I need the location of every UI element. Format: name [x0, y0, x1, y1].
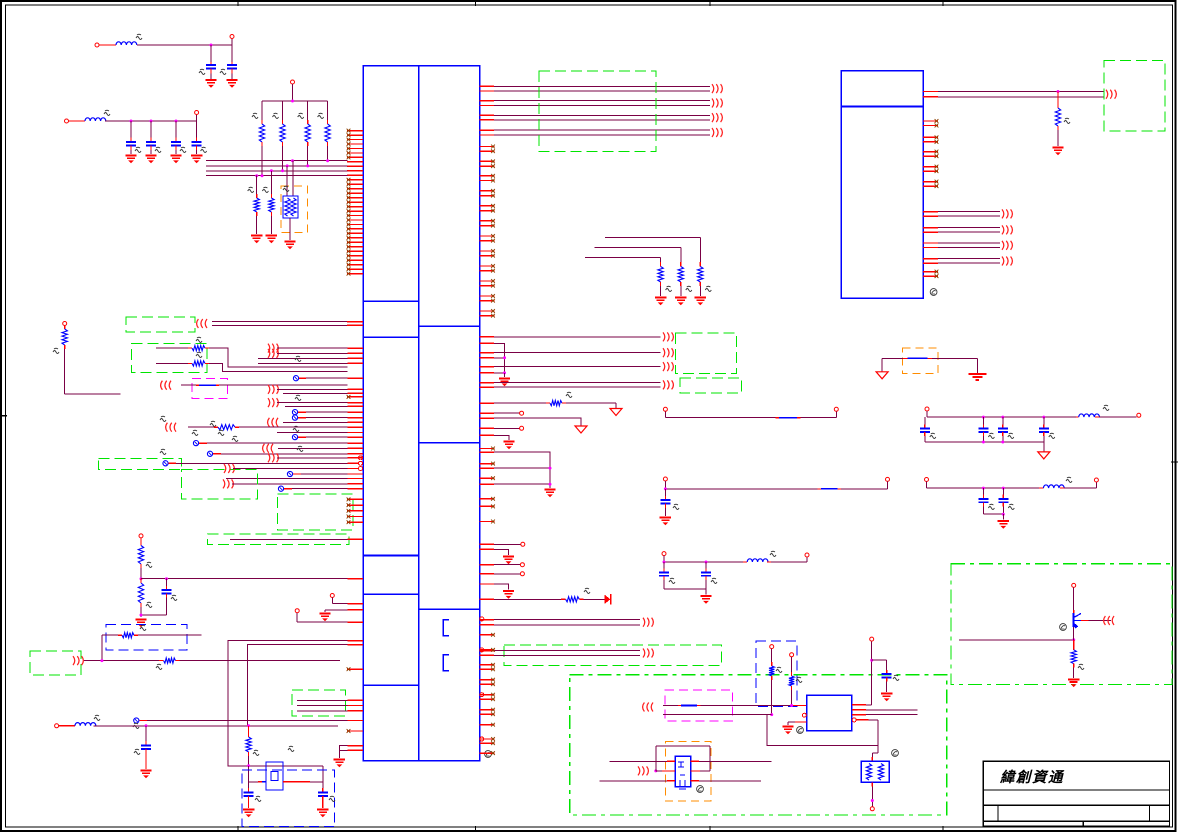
- U1 designator mark: [485, 751, 492, 758]
- capacitor C11: [660, 489, 679, 525]
- capacitor C15: [1039, 417, 1055, 442]
- junction: [664, 487, 667, 490]
- wire bus line 3: [206, 170, 348, 172]
- resistor R18 inline: [84, 658, 340, 670]
- junction: [281, 169, 284, 172]
- signal ground: [968, 374, 986, 380]
- wire to U1 pin: [230, 538, 363, 540]
- U2 wire pairs out: [923, 212, 1000, 264]
- wire to U1 pin: [268, 349, 363, 358]
- capacitor C2 label: [220, 69, 226, 74]
- power port: [1038, 452, 1050, 459]
- wire to U1 pin: [163, 461, 359, 466]
- net label: [232, 436, 238, 441]
- wire to U1 pin: [134, 718, 363, 723]
- wire open-end: [480, 542, 525, 546]
- junction: [549, 483, 552, 486]
- junction: [247, 764, 250, 767]
- wire to U1 pin: [297, 705, 363, 707]
- bus exit chevrons: [1002, 241, 1012, 250]
- bus entry chevrons: [73, 656, 83, 665]
- U1 pin bubble: [359, 461, 363, 465]
- wire: [339, 746, 347, 751]
- net label: [293, 426, 299, 431]
- U1 right column section divider 3: [419, 608, 480, 610]
- U1 pin bubble: [359, 467, 363, 471]
- junction: [870, 659, 873, 662]
- junction: [140, 614, 143, 617]
- resistor pack RP2: [861, 746, 898, 807]
- group box G9: [675, 333, 736, 373]
- transistor Q1: [1060, 583, 1111, 630]
- wire: [663, 714, 767, 716]
- wire to U1 pin: [268, 385, 363, 394]
- power port: [575, 426, 587, 433]
- group box M1: [192, 378, 228, 398]
- resistor R16: [138, 579, 152, 617]
- wire: [976, 358, 978, 372]
- group box G7b: [292, 690, 345, 716]
- group box G1: [126, 317, 195, 332]
- power port: [876, 372, 888, 379]
- U2 pin wire: [923, 91, 938, 93]
- U1 pin bubble: [359, 456, 363, 460]
- power rail cluster 2: [925, 477, 1099, 488]
- junction: [871, 799, 874, 802]
- resistor R21 to arrow: [480, 588, 611, 604]
- wire: [767, 715, 878, 746]
- wire open-end: [480, 563, 525, 567]
- wire: [339, 750, 347, 758]
- wire: [494, 418, 581, 426]
- resistor R9 with ground: [595, 247, 692, 305]
- U1 right stub pins section4: [480, 648, 495, 741]
- capacitor C6: [191, 121, 207, 163]
- capacitor bypass: [659, 562, 675, 589]
- inductor L3: [55, 715, 338, 728]
- U1 left column section divider 5: [363, 684, 419, 686]
- filter cluster: [662, 551, 809, 562]
- node VCC1 terminal: [95, 43, 99, 47]
- wire to U1 pin: [297, 710, 363, 712]
- junction: [982, 416, 985, 419]
- wire: [938, 91, 1104, 93]
- resistor R13 inline: [166, 423, 363, 436]
- inductor L1 label: [136, 34, 142, 39]
- wire to U1 pin: [292, 435, 363, 440]
- title block divider 1: [983, 789, 1169, 791]
- svg-text:緯創資通: 緯創資通: [999, 769, 1065, 786]
- wire to U1 pin: [258, 362, 363, 364]
- wire rail bottom: [925, 441, 1044, 443]
- bus exit chevrons: [712, 84, 722, 93]
- U3 right pin 3 wire: [852, 714, 918, 716]
- net label: [295, 356, 301, 361]
- junction: [255, 174, 258, 177]
- resistor R6: [262, 171, 277, 244]
- junction: [1057, 90, 1060, 93]
- wire rail bottom: [983, 513, 1003, 515]
- pin lead: [667, 760, 675, 762]
- junction: [150, 120, 153, 123]
- power rail cluster 1: [925, 405, 1141, 417]
- wire from U1: [480, 386, 661, 388]
- wire: [210, 69, 212, 80]
- junction: [663, 561, 666, 564]
- bus entry chevrons: [197, 319, 207, 328]
- IC U3 body: [807, 695, 852, 731]
- capacitor C3: [125, 121, 141, 163]
- resistor R10 with ground: [585, 257, 672, 305]
- title block strip divider: [1082, 821, 1084, 826]
- wire to U1 pin: [223, 479, 363, 488]
- wire to U1 pin: [268, 398, 363, 407]
- node VCC2 terminal: [65, 119, 69, 123]
- junction: [770, 713, 773, 716]
- wire to U1 pin: [141, 578, 363, 580]
- resistor R3: [298, 101, 311, 166]
- wire lower: [599, 780, 761, 782]
- bus entry chevrons: [643, 703, 653, 712]
- net label: [160, 449, 166, 454]
- U1 left column section divider 1: [363, 300, 419, 302]
- group box G7: [30, 651, 81, 675]
- capacitor C1: [206, 65, 216, 68]
- inductor L2: [85, 118, 106, 121]
- group box G13 main: [570, 675, 947, 815]
- junction: [705, 561, 708, 564]
- wire base: [959, 639, 1073, 641]
- IC U2 body: [841, 71, 923, 299]
- resistor R23: [789, 653, 802, 706]
- wire bus line 1: [206, 160, 348, 162]
- net label: [297, 446, 303, 451]
- resistor R2: [273, 101, 286, 171]
- wire with ground stub: [319, 610, 363, 622]
- wire bus U1 data out: [480, 86, 711, 135]
- wire to U1 pin: [268, 453, 363, 462]
- U1 pin: [480, 342, 495, 344]
- junction: [175, 120, 178, 123]
- junction: [261, 174, 264, 177]
- U1 pin nc: [347, 730, 363, 732]
- inductor L1: [116, 42, 137, 45]
- net label: [210, 421, 216, 426]
- wire: [212, 321, 348, 323]
- U3 pin bubble: [802, 713, 806, 717]
- group box B2: [756, 641, 797, 706]
- wire from U1: [480, 382, 661, 384]
- wire link W-A: [663, 407, 838, 417]
- bus exit chevrons: [643, 649, 653, 658]
- capacitor C14: [998, 417, 1014, 442]
- resistor R24: [1068, 627, 1084, 687]
- bus exit chevrons: [712, 128, 722, 137]
- group box G10: [680, 378, 742, 393]
- wire to U1 pin: [268, 344, 363, 353]
- ground: [226, 80, 237, 88]
- U1 pin bubble: [480, 617, 484, 621]
- capacitor C8: [134, 726, 152, 779]
- resistor R22: [769, 645, 782, 715]
- ground: [503, 591, 514, 599]
- wire: [228, 641, 348, 766]
- group box G6: [208, 534, 349, 545]
- bus exit chevrons: [663, 348, 673, 357]
- U1 pin: [348, 640, 364, 642]
- U1 right column section divider 2: [419, 442, 480, 444]
- junction: [1001, 416, 1004, 419]
- U1 graphic bracket 2: [443, 655, 449, 671]
- junction: [140, 577, 143, 580]
- node terminal: [870, 807, 874, 811]
- bus exit chevrons: [1002, 209, 1012, 218]
- wire: [1002, 514, 1004, 520]
- node VCC3 terminal: [291, 80, 295, 84]
- U1 right pins section1: [480, 145, 495, 318]
- capacitor C2: [227, 65, 237, 68]
- capacitor C10: [317, 782, 335, 818]
- wire open-end: [480, 411, 524, 415]
- wire: [231, 45, 233, 62]
- bus exit chevrons: [663, 332, 673, 341]
- U2 section divider: [841, 106, 923, 108]
- resistor R8 with ground: [605, 237, 711, 305]
- U1 pin wire: [480, 357, 495, 359]
- wire open-end: [480, 572, 525, 576]
- wire: [210, 62, 212, 65]
- capacitor bypass: [701, 562, 717, 589]
- wire: [494, 343, 505, 373]
- U1 pin bubble: [480, 648, 484, 652]
- U1 left column section divider 4: [363, 593, 419, 595]
- U1 left pins top section: [347, 129, 363, 276]
- wire: [494, 549, 509, 555]
- junction: [291, 100, 294, 103]
- node terminal: [195, 111, 199, 115]
- U3 right pin 2 wire: [852, 709, 918, 711]
- title block divider 2: [983, 804, 1169, 806]
- capacitor C14: [872, 660, 899, 701]
- capacitor C9: [243, 782, 261, 818]
- U1 right stub pins section2: [480, 447, 495, 524]
- wire: [231, 62, 233, 65]
- U2 pin wire: [923, 96, 938, 98]
- U1 pin: [348, 749, 364, 751]
- capacitor C7: [141, 579, 177, 615]
- wire to U1 pin: [283, 392, 363, 394]
- transistor array U4: [675, 756, 703, 792]
- U1 pin: [480, 434, 495, 436]
- U1 left stub pins in G5: [347, 498, 363, 525]
- bus exit chevrons: [712, 113, 722, 122]
- border zone ticks top: [238, 0, 943, 6]
- wire: [610, 760, 673, 762]
- wire from U1: [480, 352, 661, 354]
- resistor R5: [248, 176, 263, 244]
- wire to U1 pin: [258, 357, 363, 359]
- U3 right pin 1 net: [852, 637, 874, 705]
- border zone tick right: [1171, 461, 1178, 463]
- junction: [503, 371, 506, 374]
- U2 right stub pins: [923, 119, 938, 278]
- junction: [982, 441, 985, 444]
- wire rail: [664, 588, 706, 590]
- junction: [291, 159, 294, 162]
- wire: [196, 114, 198, 121]
- title block vline 1: [997, 805, 999, 821]
- wire: [231, 69, 233, 80]
- U1 pin bubble: [480, 737, 484, 741]
- U1 right column section divider 1: [419, 325, 480, 327]
- junction: [1002, 487, 1005, 490]
- ground: [700, 589, 711, 604]
- group box G8: [539, 71, 656, 152]
- junction: [1002, 513, 1005, 516]
- border zone ticks bottom: [238, 826, 943, 832]
- wire from U1: [480, 619, 641, 621]
- resistor R11: [156, 337, 209, 350]
- bus exit chevrons: [1002, 225, 1012, 234]
- capacitor C12: [920, 417, 936, 442]
- wire: [105, 120, 197, 122]
- wire: [209, 348, 348, 367]
- junction: [503, 356, 506, 359]
- group box M2: [665, 690, 732, 721]
- wire link W-B: [663, 477, 889, 489]
- group box G14: [951, 564, 1172, 685]
- wire: [99, 44, 116, 46]
- bus exit chevrons: [1106, 90, 1116, 99]
- U2 designator mark: [930, 289, 937, 296]
- wire: [248, 766, 250, 782]
- junction: [286, 164, 289, 167]
- group box B1: [106, 625, 187, 651]
- net label: [295, 395, 301, 400]
- U1 pin: [480, 548, 495, 550]
- group box O2: [903, 348, 938, 374]
- node wire with terminal: [295, 609, 363, 622]
- wire: [101, 635, 103, 660]
- junction: [165, 577, 168, 580]
- wire with jumper to U3: [663, 705, 807, 707]
- wire: [69, 120, 86, 122]
- wire: [1043, 442, 1045, 452]
- capacitor C1 label: [199, 69, 205, 74]
- wire to U1 pin: [193, 441, 363, 446]
- resistor R12: [156, 352, 209, 366]
- wire: [231, 38, 233, 45]
- wire: [938, 96, 1104, 98]
- net label: [160, 416, 166, 421]
- orange group box resistor pack: [281, 186, 308, 233]
- node wire with terminal: [330, 594, 363, 604]
- group box G5: [278, 494, 353, 530]
- U1 pin wire: [480, 467, 495, 469]
- wire bus line 2: [206, 165, 348, 167]
- junction: [982, 487, 985, 490]
- U1 pin: [480, 583, 495, 585]
- wire: [494, 584, 509, 590]
- U1 graphic bracket 1: [443, 620, 449, 636]
- resistor R15: [138, 534, 152, 579]
- wire open-end: [480, 426, 524, 430]
- wire bus line 4: [206, 175, 348, 177]
- ground: [503, 556, 514, 564]
- junction: [210, 44, 213, 47]
- junction: [100, 659, 103, 662]
- wire: [494, 435, 509, 440]
- junction: [145, 724, 148, 727]
- crystal Y1: [249, 746, 310, 790]
- border zone tick left: [0, 415, 7, 417]
- junction: [306, 164, 309, 167]
- net label: [133, 723, 139, 728]
- wire: [137, 44, 232, 46]
- U1 pin wire: [480, 372, 495, 374]
- inductor L2 label: [104, 110, 110, 115]
- U1 pin nc: [347, 396, 363, 398]
- capacitor C13: [978, 417, 994, 442]
- wire: [248, 645, 348, 726]
- junction: [1001, 441, 1004, 444]
- U1 pin nc: [347, 668, 363, 670]
- wire: [881, 358, 883, 371]
- junction: [1042, 416, 1045, 419]
- resistor R1: [252, 101, 265, 176]
- capacitor bypass: [978, 488, 994, 514]
- capacitor C4: [145, 121, 161, 163]
- IC U1 body right column: [419, 66, 480, 761]
- wire from U1: [480, 624, 641, 626]
- wire: [767, 714, 772, 716]
- wire to U1 pin: [292, 415, 363, 420]
- wire: [292, 84, 294, 101]
- ground: [334, 760, 345, 768]
- bus exit chevrons: [663, 380, 673, 389]
- wire to U1 pin: [293, 376, 363, 381]
- U3 pin to ground: [782, 722, 806, 734]
- wire: [210, 45, 212, 62]
- resistor R14 series: [53, 322, 121, 395]
- title block vline 2: [1149, 805, 1151, 821]
- U1 pin: [347, 321, 363, 323]
- wire to U1 pin: [226, 478, 363, 480]
- bus entry chevrons: [161, 381, 171, 390]
- junction: [549, 467, 552, 470]
- wire upper right of U4: [691, 760, 772, 762]
- U1 right stub pins section3: [480, 633, 495, 755]
- U1 left column section divider 3: [363, 555, 419, 557]
- wire to U1 pin: [263, 444, 363, 453]
- wire to U1 pin: [292, 410, 363, 415]
- resistor R20 inline: [480, 392, 623, 415]
- resistor pack RP1: [283, 161, 298, 250]
- wire to U1 pin: [278, 486, 363, 491]
- ground: [205, 80, 216, 88]
- wire from U1: [480, 650, 641, 652]
- bus exit chevrons: [1002, 257, 1012, 266]
- U1 pin: [348, 745, 364, 747]
- ferrite bead FB2: [882, 357, 977, 359]
- IC U1 body left column: [363, 66, 419, 761]
- resistor R17: [102, 625, 202, 638]
- wire from U1: [480, 336, 661, 338]
- junction: [790, 704, 793, 707]
- junction: [247, 724, 250, 727]
- title block outer: [983, 761, 1169, 821]
- wire to U1 pin: [297, 699, 363, 701]
